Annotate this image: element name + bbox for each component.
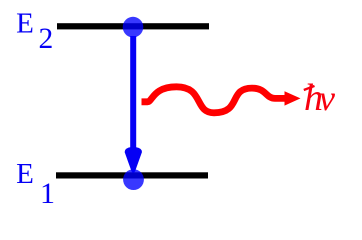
- red photon wavy arrow: [142, 87, 301, 113]
- upper energy level line E2: [57, 23, 209, 29]
- svg-text:1: 1: [40, 177, 55, 209]
- electron dot on lower level: [123, 169, 144, 190]
- electron dot on upper level: [123, 17, 144, 38]
- lower energy level line E1: [56, 172, 208, 178]
- photon energy label h-bar nu: [304, 77, 335, 119]
- svg-text:ν: ν: [319, 78, 335, 118]
- svg-text:E: E: [16, 8, 34, 40]
- svg-text:E: E: [16, 158, 34, 190]
- blue transition arrow (E2 to E1): [125, 36, 142, 173]
- label E1: [16, 158, 55, 210]
- svg-text:2: 2: [39, 23, 54, 55]
- label E2: [16, 8, 53, 55]
